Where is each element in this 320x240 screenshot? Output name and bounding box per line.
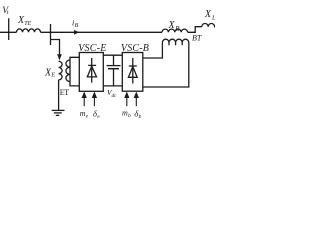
svg-text:VSC-B: VSC-B <box>121 43 149 54</box>
svg-text:L: L <box>211 15 215 22</box>
svg-text:BT: BT <box>192 33 202 42</box>
svg-text:b: b <box>128 113 131 119</box>
svg-text:B: B <box>75 23 79 29</box>
svg-text:dc: dc <box>112 93 118 99</box>
svg-text:X: X <box>204 9 212 20</box>
svg-text:ET: ET <box>60 88 69 97</box>
svg-text:b: b <box>139 114 142 120</box>
svg-text:TE: TE <box>24 21 31 27</box>
svg-text:VSC-E: VSC-E <box>78 43 106 54</box>
svg-text:E: E <box>50 72 55 79</box>
svg-text:X: X <box>168 20 176 31</box>
svg-text:B: B <box>175 25 180 33</box>
